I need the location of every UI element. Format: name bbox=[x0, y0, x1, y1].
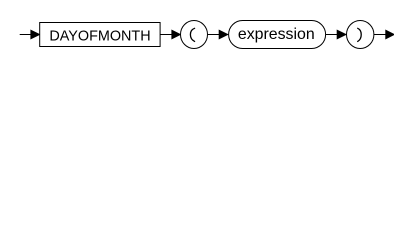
non-terminal pill: expression bbox=[229, 21, 326, 49]
circle for close parenthesis bbox=[347, 21, 374, 49]
wire: open-paren circle to expression pill bbox=[208, 34, 220, 36]
arrowhead into DAYOFMONTH box bbox=[31, 30, 40, 38]
terminal box DAYOFMONTH bbox=[40, 23, 160, 47]
close parenthesis glyph bbox=[358, 28, 362, 41]
svg-text:expression: expression bbox=[238, 26, 315, 43]
arrowhead into expression pill bbox=[219, 30, 228, 38]
wire: exit line bbox=[374, 34, 387, 36]
svg-text:DAYOFMONTH: DAYOFMONTH bbox=[49, 29, 150, 45]
wire: box to open-paren circle bbox=[160, 34, 173, 36]
open parenthesis glyph bbox=[190, 28, 194, 41]
arrowhead into close-paren circle bbox=[337, 30, 346, 38]
arrowhead exit bbox=[386, 30, 394, 38]
railroad syntax diagram: DAYOFMONTH ( expression ) bbox=[0, 0, 394, 58]
wire: pill to close-paren circle bbox=[326, 34, 338, 36]
circle for open parenthesis bbox=[181, 21, 208, 49]
background bbox=[0, 0, 394, 58]
arrowhead into open-paren circle bbox=[172, 30, 180, 38]
wire: entry line bbox=[20, 34, 32, 36]
